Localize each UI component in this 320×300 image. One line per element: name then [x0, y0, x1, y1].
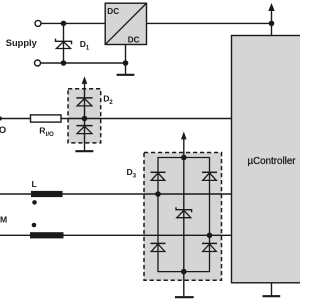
wire I/O input [0, 117, 31, 121]
label L [32, 179, 37, 189]
svg-text:M: M [0, 214, 7, 224]
wire top supply rail [41, 22, 105, 24]
wire DC/DC bottom pin [125, 45, 127, 64]
wire DC/DC output to Vcc node [147, 22, 272, 24]
diode D2 upper [76, 98, 92, 106]
ground below DC/DC [117, 63, 135, 75]
wire bridge loop [158, 158, 210, 272]
diode D3 upper left [151, 172, 166, 180]
dashed box D2 [68, 89, 101, 143]
wire L to bridge and microcontroller [63, 193, 232, 195]
diode D2 lower [76, 126, 92, 134]
svg-text:L: L [32, 179, 37, 189]
svg-text:µController: µController [247, 156, 296, 167]
zener diode D3 center [176, 207, 192, 218]
diode D3 upper right [202, 172, 217, 180]
node DC/DC ground junction [123, 60, 129, 66]
svg-text:Supply: Supply [6, 38, 38, 48]
node bridge bottom [181, 269, 187, 275]
svg-text:DC: DC [107, 7, 119, 16]
wire L input [0, 193, 31, 195]
label I/O [0, 124, 6, 135]
ground below D2 [75, 150, 93, 152]
svg-text:I/O: I/O [0, 124, 6, 135]
svg-text:1: 1 [86, 44, 90, 51]
inductor winding M [30, 232, 64, 238]
node M bridge tap [207, 233, 213, 239]
wire D2 vertical branch [84, 83, 86, 152]
resistor R I/O [31, 115, 62, 122]
label M [0, 214, 7, 224]
node L bridge tap [155, 191, 161, 197]
microcontroller U2 [232, 36, 311, 283]
label Supply [6, 38, 38, 48]
label D2 [103, 93, 113, 106]
svg-text:3: 3 [133, 172, 137, 179]
label D3 [127, 167, 137, 180]
label R I/O [39, 126, 54, 139]
polarity dot L [32, 200, 37, 205]
wire Vcc to microcontroller [271, 23, 273, 35]
terminal supply minus [35, 60, 41, 66]
label DC output [128, 36, 140, 45]
svg-text:I/O: I/O [46, 131, 54, 138]
label D1 [80, 39, 90, 51]
node bottom rail / D1 [61, 60, 67, 66]
wire bottom supply rail [41, 62, 126, 64]
node I/O clamp [82, 116, 88, 122]
ground below D3 [175, 296, 194, 298]
label DC input [107, 7, 119, 16]
node Vcc [269, 21, 275, 27]
zener diode D1 [56, 39, 72, 49]
Vcc supply arrow [268, 3, 274, 23]
terminal supply plus [35, 20, 41, 26]
arrow D2 to Vcc [82, 76, 88, 84]
wire M input [0, 234, 30, 236]
wire I/O to microcontroller [61, 118, 232, 120]
wire bridge center branch [183, 138, 185, 297]
node bridge top [181, 155, 187, 161]
diode D3 lower left [151, 243, 166, 251]
dashed box D3 [144, 153, 222, 281]
svg-text:DC: DC [128, 36, 140, 45]
svg-text:2: 2 [109, 99, 113, 106]
DC/DC converter U1 [105, 3, 146, 44]
node top rail / D1 [61, 21, 67, 27]
diode D3 lower right [202, 243, 217, 251]
polarity dot M [32, 223, 37, 228]
inductor winding L [31, 191, 63, 197]
wire M to bridge and microcontroller [64, 234, 232, 236]
ground below microcontroller [263, 283, 281, 296]
arrow D3 to Vcc [181, 132, 187, 140]
wire D1 branch [63, 23, 65, 63]
